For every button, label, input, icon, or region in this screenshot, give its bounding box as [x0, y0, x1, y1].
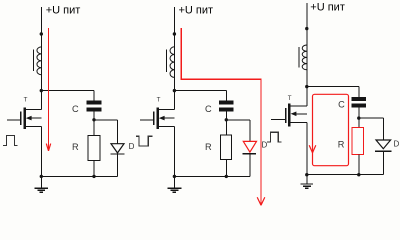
transistor Q3 body arrow	[295, 113, 308, 115]
wire: diode branch down, circuit 1	[117, 120, 119, 144]
node junction dot below capacitor, circuit 1	[92, 118, 95, 121]
wire: diode cathode to ground rail, circuit 3	[382, 151, 384, 175]
wire: +U supply rail down to drain, circuit 2	[173, 7, 175, 109]
inductor L1 core bar	[32, 49, 34, 71]
transistor Q2 drain lead wire	[159, 108, 175, 110]
wire: diode branch down, circuit 2	[249, 120, 251, 142]
svg-text:+U пит: +U пит	[179, 5, 214, 17]
wire: bottom ground rail, circuit 1	[41, 175, 117, 177]
node junction dot on supply wire, circuit 2	[173, 32, 176, 35]
gate pulse waveform icon, circuit 2 (negative pulse)	[136, 136, 152, 146]
transistor Q1 gate bar	[20, 112, 22, 126]
capacitor C2 plates	[219, 100, 234, 104]
wire: bottom ground rail, circuit 2	[174, 175, 250, 177]
diode D1 cathode bar	[111, 153, 125, 155]
svg-text:+U пит: +U пит	[46, 5, 81, 17]
inductor L1 (winding arcs)	[37, 47, 41, 75]
red current path arrow, circuit 2 (through diode to load)	[181, 28, 261, 205]
node junction dot on supply wire, circuit 1	[40, 32, 43, 35]
node junction dot rail/ground, circuit 2	[173, 175, 176, 178]
wire: source down to ground rail, circuit 2	[173, 126, 175, 176]
node junction dot below capacitor, circuit 3	[357, 116, 360, 119]
capacitor C3 plates	[352, 97, 367, 101]
svg-text:C: C	[72, 104, 79, 114]
svg-text:C: C	[205, 104, 212, 114]
diode D1 triangle	[111, 144, 124, 153]
wire: resistor bottom to ground rail, circuit 2	[225, 160, 227, 177]
transistor Q1 drain lead wire	[26, 108, 42, 110]
resistor R3	[352, 128, 364, 155]
wire: +U supply rail down to drain, circuit 1	[40, 7, 42, 109]
wire: source down to ground rail, circuit 3	[306, 123, 308, 175]
node junction dot at drain branch, circuit 2	[173, 89, 176, 92]
transistor Q3 source lead wire	[291, 122, 307, 124]
wire: resistor bottom to ground rail, circuit 3	[358, 154, 360, 174]
transistor Q1 gate lead wire	[7, 119, 21, 121]
svg-text:T: T	[288, 95, 292, 102]
resistor R2	[220, 135, 231, 160]
diode D2 cathode bar	[243, 153, 257, 155]
transistor Q2 body arrow	[163, 117, 175, 119]
resistor R1	[88, 136, 100, 161]
transistor Q2 gate lead wire	[140, 119, 154, 121]
wire: node to diode branch, circuit 1	[94, 119, 118, 121]
wire: node to diode branch, circuit 3	[359, 117, 384, 119]
transistor Q1 body arrow	[30, 117, 42, 119]
wire: node to diode branch, circuit 2	[226, 119, 250, 121]
svg-text:T: T	[157, 97, 161, 104]
inductor L2 core bar	[166, 50, 168, 72]
inductor L3 core bar	[298, 47, 300, 68]
ground symbol, circuit 3	[306, 175, 308, 184]
inductor L3 (winding arcs)	[302, 45, 307, 70]
capacitor C1 plates	[87, 100, 102, 104]
wire: diode branch down, circuit 3	[382, 118, 384, 140]
diode D3 cathode bar	[375, 150, 392, 152]
transistor Q3 channel bar	[288, 103, 290, 126]
wire: resistor bottom to ground rail, circuit 1	[93, 161, 95, 177]
wire: +U supply rail down to drain, circuit 3	[306, 3, 308, 106]
transistor Q1 channel bar	[23, 108, 25, 129]
wire: source down to ground rail, circuit 1	[40, 126, 42, 176]
node junction dot rail/resistor, circuit 2	[225, 175, 228, 178]
transistor Q1 source lead wire	[26, 125, 42, 127]
wire: diode cathode to ground rail, circuit 1	[117, 154, 119, 176]
node junction dot below capacitor, circuit 2	[225, 118, 228, 121]
wire: bottom ground rail, circuit 3	[307, 174, 384, 176]
svg-text:T: T	[24, 97, 28, 104]
transistor Q2 channel bar	[156, 108, 158, 129]
node junction dot at drain branch, circuit 1	[40, 89, 43, 92]
diode D2 triangle	[243, 141, 256, 152]
wire: capacitor bottom to RD node, circuit 1	[93, 112, 95, 136]
diode D3 triangle	[376, 140, 391, 149]
red circulating current loop, circuit 3 (C-R loop)	[313, 94, 349, 165]
transistor Q2 source lead wire	[159, 125, 175, 127]
svg-text:R: R	[338, 139, 345, 149]
svg-text:C: C	[338, 99, 345, 109]
transistor Q2 gate bar	[153, 112, 155, 126]
gate pulse waveform icon, circuit 3 (positive pulse)	[267, 132, 282, 142]
transistor Q3 gate lead wire	[271, 118, 286, 120]
wire: capacitor bottom to RD node, circuit 2	[225, 112, 227, 135]
svg-text:R: R	[72, 142, 79, 152]
transistor Q3 gate bar	[285, 108, 287, 123]
wire: drain node to capacitor branch, circuit 3	[307, 86, 359, 88]
node junction dot on supply wire, circuit 3	[305, 27, 308, 30]
ground symbol, circuit 2	[173, 176, 175, 187]
transistor Q3 drain lead wire	[291, 105, 307, 107]
inductor L2 (winding arcs)	[170, 47, 174, 78]
node junction dot rail/ground, circuit 3	[305, 173, 308, 176]
wire: capacitor bottom to RD node, circuit 3	[358, 108, 360, 128]
node junction dot at drain branch, circuit 3	[305, 85, 308, 88]
red current path arrow, circuit 1 (through transistor)	[48, 28, 50, 151]
node junction dot rail/resistor, circuit 3	[357, 173, 360, 176]
svg-text:R: R	[205, 142, 212, 152]
svg-text:D: D	[262, 140, 268, 149]
ground symbol, circuit 1	[40, 176, 42, 187]
wire: drain node to capacitor branch, circuit 1	[41, 90, 94, 92]
node junction dot rail/resistor, circuit 1	[92, 175, 95, 178]
node junction dot rail/ground, circuit 1	[40, 175, 43, 178]
wire: diode cathode to ground rail, circuit 2	[249, 154, 251, 177]
wire: drain node to capacitor branch, circuit 2	[174, 90, 226, 92]
svg-text:D: D	[394, 140, 400, 149]
svg-text:D: D	[129, 142, 135, 151]
gate pulse waveform icon, circuit 1 (positive pulse)	[3, 136, 18, 146]
svg-text:+U пит: +U пит	[310, 2, 345, 14]
